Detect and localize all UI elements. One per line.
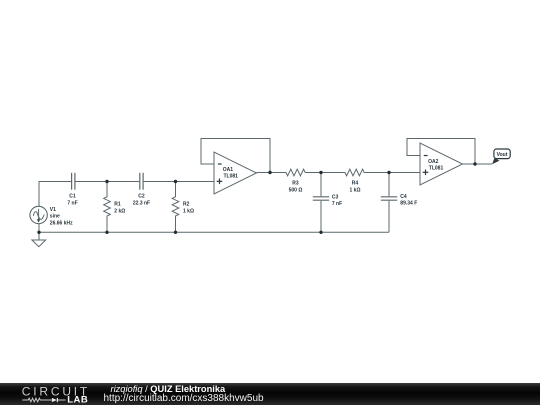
svg-text:OA2: OA2 <box>428 159 439 165</box>
junction node C2-R2 <box>174 180 177 183</box>
wire R4 to OA2 plus input <box>364 172 420 174</box>
ground <box>32 240 46 247</box>
svg-text:1 kΩ: 1 kΩ <box>183 208 194 214</box>
svg-text:2 kΩ: 2 kΩ <box>114 208 125 214</box>
junction node OA1 output <box>268 171 271 174</box>
svg-text:C3: C3 <box>332 194 339 200</box>
wire C1 to C2 <box>75 181 139 183</box>
wire OA2 feedback loop <box>407 139 475 165</box>
footer bar <box>0 383 540 405</box>
capacitor C2 <box>140 173 143 190</box>
wire R3 to R4 <box>305 172 345 174</box>
footer author line <box>111 384 226 394</box>
label OA2 value <box>428 159 443 172</box>
junction node V1-ground <box>37 231 40 234</box>
resistor R3 <box>286 169 305 176</box>
wire top rail V1 to C1 <box>39 182 71 207</box>
label R1 value <box>114 202 125 215</box>
resistor R4 <box>345 169 364 176</box>
wire C2 to OA1 plus input <box>144 181 214 183</box>
capacitor C3 <box>313 173 329 233</box>
svg-text:R4: R4 <box>352 181 359 187</box>
svg-text:500 Ω: 500 Ω <box>289 187 303 193</box>
svg-text:7 nF: 7 nF <box>67 200 77 206</box>
CircuitLab logo <box>0 383 100 405</box>
label V1 value <box>50 207 73 227</box>
junction node C1-R1 <box>105 180 108 183</box>
svg-text:Vout: Vout <box>497 152 508 158</box>
label C1 value <box>67 194 77 207</box>
svg-text:TL081: TL081 <box>429 166 444 172</box>
svg-text:1 kΩ: 1 kΩ <box>350 187 361 193</box>
junction node OA2 output <box>473 162 476 165</box>
label C3 value <box>332 194 342 207</box>
svg-text:C4: C4 <box>400 194 407 200</box>
capacitor C1 <box>72 173 75 190</box>
wire OA1 output <box>257 172 287 174</box>
svg-text:89.34 F: 89.34 F <box>400 200 417 206</box>
junction node R2 bottom <box>174 231 177 234</box>
junction node R4-C4 <box>387 171 390 174</box>
svg-text:R1: R1 <box>114 202 121 208</box>
voltage source V1 <box>30 206 47 223</box>
wire bottom rail <box>39 231 389 233</box>
svg-text:TL081: TL081 <box>224 173 239 179</box>
svg-text:7 nF: 7 nF <box>332 201 342 207</box>
svg-text:22.3 nF: 22.3 nF <box>133 200 150 206</box>
junction node R3-C3 <box>319 171 322 174</box>
flag Vout <box>492 149 510 164</box>
svg-text:OA1: OA1 <box>223 167 234 173</box>
junction node R1 bottom <box>105 231 108 234</box>
svg-text:26.66 kHz: 26.66 kHz <box>50 221 73 227</box>
label R3 value <box>289 181 303 194</box>
label R2 value <box>183 202 194 215</box>
op-amp OA2 <box>420 143 463 185</box>
svg-text:LAB: LAB <box>67 395 88 405</box>
svg-text:R2: R2 <box>183 202 190 208</box>
op-amp OA1 <box>214 152 257 194</box>
svg-text:R3: R3 <box>292 181 299 187</box>
capacitor C4 <box>381 173 397 233</box>
svg-text:C2: C2 <box>138 194 145 200</box>
svg-text:V1: V1 <box>50 207 56 213</box>
wire V1 bottom to ground rail <box>38 224 40 240</box>
wire OA1 feedback loop <box>201 139 270 173</box>
label OA1 value <box>223 167 238 180</box>
label C4 value <box>400 194 417 207</box>
svg-text:C1: C1 <box>69 194 76 200</box>
label C2 value <box>133 194 150 207</box>
label R4 value <box>350 181 361 194</box>
svg-text:sine: sine <box>50 214 60 220</box>
resistor R2 <box>172 182 179 233</box>
label Vout <box>497 152 508 158</box>
resistor R1 <box>104 182 111 233</box>
footer url line <box>104 393 264 404</box>
junction node C3 bottom <box>319 231 322 234</box>
wire OA2 output to Vout <box>463 163 493 165</box>
